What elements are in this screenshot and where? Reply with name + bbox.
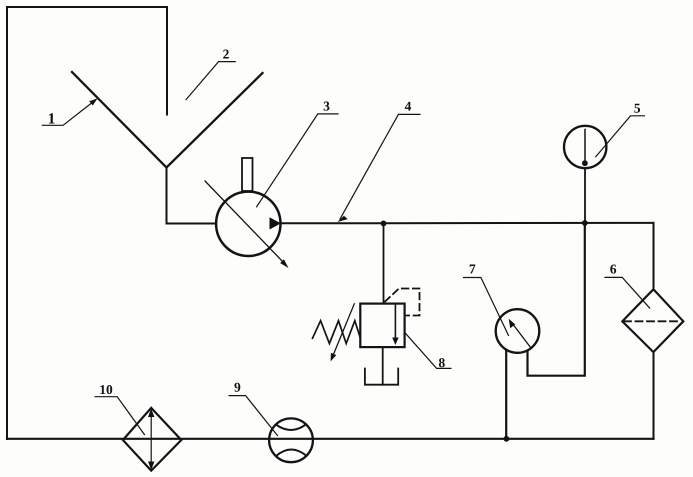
pump 3 (variable displacement pump circle) xyxy=(216,192,280,256)
label 4 leader xyxy=(340,114,420,219)
labels with leader lines xyxy=(42,62,649,436)
wire: right branch down to filter 6 xyxy=(653,223,655,289)
node: junction on bottom return line xyxy=(504,436,510,442)
wire: hopper outlet to pump inlet xyxy=(167,168,217,224)
label digit 6 xyxy=(610,265,616,274)
label 6 leader xyxy=(605,277,650,308)
wire: branch down to relief valve xyxy=(383,223,385,303)
cooler 10 (diamond with vertical double arrow) xyxy=(123,408,181,471)
label digit 8 xyxy=(439,358,445,367)
wire: component 7 drain to bottom line xyxy=(505,351,507,439)
pump 3 shaft xyxy=(242,158,253,191)
label 7 leader xyxy=(464,278,509,336)
gauge 7 (circle with needle) xyxy=(496,309,540,353)
label 3 leader xyxy=(257,114,338,207)
label digit 5 xyxy=(634,104,640,113)
label 10 leader xyxy=(95,397,144,435)
pump 3 variable arrow (diagonal) xyxy=(205,181,284,263)
label digit 2 xyxy=(223,50,229,59)
label digit 10 xyxy=(100,385,112,394)
node: junction to gauge / component 7 branch xyxy=(582,220,588,226)
label 8 leader xyxy=(405,333,451,368)
wire: relief valve drain xyxy=(382,347,384,385)
relief valve 8 adjustment arrow xyxy=(334,304,355,355)
label digit 7 xyxy=(470,265,476,274)
wire: outer supply loop (left vertical, top horizontal, inlet pipe into hopper) xyxy=(7,7,167,439)
wire: branch from main line down and across to component 7 xyxy=(528,223,585,376)
relief valve 8 body xyxy=(360,304,404,348)
label 9 leader xyxy=(229,396,277,436)
tank/hopper 1 (V funnel) xyxy=(72,72,263,168)
label digit 1 xyxy=(49,113,55,123)
pump 3 flow direction triangle xyxy=(270,217,281,229)
wire: pump outlet main pressure line xyxy=(281,222,654,224)
relief valve 8 pilot line (dashed) xyxy=(385,289,420,316)
label 1 leader xyxy=(42,102,93,126)
filter 6 (diamond with dashed element) xyxy=(622,289,683,352)
wire: bottom return line xyxy=(7,438,654,440)
label 2 leader xyxy=(186,62,235,100)
label digit 3 xyxy=(324,102,330,111)
label digit 9 xyxy=(234,383,240,392)
wire: gauge stem xyxy=(584,168,586,223)
pressure gauge 5 xyxy=(564,126,606,168)
label 5 leader xyxy=(596,116,645,157)
flow meter 9 (circle with two arcs) xyxy=(269,418,313,462)
wire: filter 6 to bottom return line xyxy=(653,352,655,439)
relief valve 8 spring xyxy=(313,321,361,344)
relief valve 8 internal flow arrow xyxy=(394,305,396,340)
tank symbol under relief valve xyxy=(365,369,398,385)
node: junction to relief valve xyxy=(381,221,387,227)
label digit 4 xyxy=(405,102,411,111)
